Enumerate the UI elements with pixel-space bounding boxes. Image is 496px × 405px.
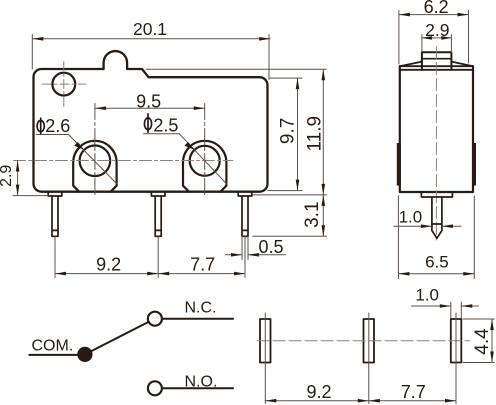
side button (422, 52, 452, 70)
svg-text:3.1: 3.1 (302, 201, 323, 227)
label phi2.5 symbol (144, 118, 151, 130)
dim 1.0 (bottom) right leader + arrow (461, 305, 478, 307)
pin 3 vertical centerline (455, 313, 457, 368)
side pin shank + tip (432, 197, 442, 238)
side pin seat (421, 192, 452, 197)
dim 2.9 bottom extension (13, 195, 49, 197)
svg-text:2.5: 2.5 (153, 116, 178, 136)
pin 2 extension below (157, 237, 159, 278)
mounting hole crosshair horizontal (42, 83, 86, 85)
pin 1 extension below (54, 237, 56, 278)
dim 6.5 extension left (397, 196, 399, 279)
dim 20.1 line (32, 38, 270, 40)
pin 3 extension below (244, 237, 246, 278)
label phi2.6 arrowhead (74, 142, 84, 150)
COM wire (29, 354, 77, 356)
side tab left (black) (397, 143, 401, 186)
dim 3.1 bottom extension (253, 235, 327, 237)
pin 3 (front view) (238, 192, 252, 237)
dim arrows (bottom) (265, 399, 276, 403)
dim 0.5 left leader + arrow (226, 254, 243, 256)
dim 6.5 extension right (473, 196, 475, 279)
dim 2.9 (side) extensions (421, 35, 423, 53)
dim 9.5 arrow left (95, 106, 106, 110)
dim 9.7 bottom extension (268, 190, 302, 192)
mounting hole (top-left circle) (52, 73, 75, 96)
svg-text:20.1: 20.1 (133, 19, 167, 39)
N.O. contact circle (148, 381, 162, 395)
dim 20.1 extension line right (268, 35, 270, 80)
hole phi2.5 (right hole circle) (190, 146, 220, 176)
svg-text:0.5: 0.5 (258, 237, 283, 257)
N.C. contact circle (148, 312, 162, 326)
svg-text:COM.: COM. (32, 338, 74, 355)
dim 2.9 (side) arrows (422, 36, 432, 40)
dim 4.4 arrows (490, 319, 494, 330)
pin 2 vertical centerline (368, 313, 370, 368)
dim 1.0 (side) left leader + arrow (394, 225, 432, 227)
N.C. wire (162, 318, 233, 320)
dim 20.1 extension line left (31, 35, 33, 70)
dim 2.9 arrow down (16, 185, 20, 196)
dim 6.5 line (398, 273, 474, 275)
svg-text:11.9: 11.9 (304, 116, 325, 152)
svg-text:7.7: 7.7 (190, 255, 215, 275)
svg-text:2.9: 2.9 (0, 165, 15, 187)
dim 9.2/7.7 line (front pins) (55, 273, 245, 275)
dim 3.1 arrow down (322, 225, 326, 236)
dim 2.9 line (17, 161, 19, 196)
dim 6.2 extension left (398, 11, 400, 65)
dim 9.7 line (297, 78, 299, 191)
side cap slope left (400, 62, 422, 67)
dim 6.2 arrows (399, 13, 410, 17)
hole 1 vertical centerline / 9.5 extension (94, 104, 96, 197)
dim 9.7 top extension (270, 77, 302, 79)
side cap line lower (400, 69, 473, 71)
lever wire COM to N.C. (85, 322, 149, 355)
pin 1 vertical centerline (264, 313, 266, 368)
dim 4.4 line (491, 319, 493, 363)
mounting hole crosshair vertical (63, 62, 65, 107)
dim 4.4 extensions (463, 318, 495, 320)
bottom view horizontal centerline (257, 340, 470, 342)
dim 11.9 arrow down (322, 184, 326, 195)
dim 2.9 (side) line (422, 37, 452, 39)
switch body outline (front view) (34, 51, 268, 192)
svg-text:2.6: 2.6 (45, 116, 70, 136)
bottom view pin 2 (364, 319, 375, 363)
holes horizontal centerline (14, 160, 234, 162)
foot 2 (right boss outline) (183, 141, 226, 192)
dim 7.7 arrow right (234, 272, 245, 276)
svg-text:2.9: 2.9 (425, 20, 449, 40)
label phi2.6 leader (69, 135, 118, 185)
svg-text:9.5: 9.5 (136, 91, 161, 111)
dim 20.1 arrow left (32, 37, 43, 41)
side button inner line (422, 58, 452, 60)
dim 1.0 (bottom) left leader + arrow (412, 305, 451, 307)
foot 1 (left boss outline) (73, 141, 116, 192)
dim 9.5 arrow right (194, 106, 205, 110)
dim 11.9 line (322, 69, 324, 195)
dim 2.9 arrow up (16, 161, 20, 172)
label phi2.6 underline (36, 134, 69, 136)
dim 0.5 extension lines (241, 237, 243, 260)
bottom view pin 3 (451, 319, 462, 363)
dim 1.0 (bottom) extensions (450, 302, 452, 318)
side center line (dashed) (435, 47, 437, 241)
svg-text:6.5: 6.5 (425, 252, 449, 271)
dim 6.2 extension right (468, 11, 470, 64)
dim 9.2 arrow left (55, 272, 66, 276)
label phi2.5 arrowhead (184, 142, 194, 150)
dim 11.9 bottom extension (252, 194, 326, 196)
label phi2.5 underline (144, 133, 180, 135)
svg-text:N.O.: N.O. (185, 373, 218, 390)
pin 2 (front view) (151, 192, 165, 237)
svg-text:9.7: 9.7 (277, 118, 298, 144)
svg-text:9.2: 9.2 (96, 255, 121, 275)
dim 3.1 arrow up (322, 195, 326, 206)
svg-text:4.4: 4.4 (472, 328, 493, 355)
N.O. wire (162, 387, 233, 389)
dim 0.5 right leader + arrow (248, 254, 286, 256)
pin 1 (front view, seat + shank + tip) (48, 192, 62, 237)
label phi2.6 symbol (37, 121, 44, 132)
dim 3.1 line (322, 195, 324, 236)
svg-text:1.0: 1.0 (399, 207, 423, 226)
side cap slope right (451, 62, 473, 67)
svg-text:N.C.: N.C. (185, 299, 217, 316)
bottom view pin 1 (260, 319, 271, 363)
dim 20.1 arrow right (259, 37, 270, 41)
side body outline (400, 66, 473, 192)
dim 11.9 arrow up (322, 69, 326, 80)
hole phi2.6 (left hole circle) (80, 146, 111, 177)
dim 9.7 arrow down (296, 180, 300, 191)
dim 6.5 arrows (398, 272, 409, 276)
dim 9.2/7.7 line (bottom) (265, 400, 456, 402)
svg-text:9.2: 9.2 (306, 382, 331, 402)
side tab right (black) (472, 143, 476, 186)
dim 9.7 arrow up (296, 78, 300, 89)
COM node (filled dot) (77, 347, 92, 362)
dim arrows at pin2 (147, 272, 158, 276)
label phi2.5 leader (179, 134, 227, 185)
bottom pins extension lines (264, 368, 266, 404)
dim 11.9 top extension (146, 68, 326, 70)
dim 1.0 (side) right leader + arrow (442, 225, 461, 227)
side cap line upper (400, 65, 473, 67)
dim 6.2 line (399, 14, 469, 16)
svg-text:6.2: 6.2 (424, 0, 449, 17)
dim 9.5 line (95, 107, 205, 109)
svg-text:7.7: 7.7 (401, 382, 426, 402)
hole 2 vertical centerline / 9.5 extension (204, 104, 206, 197)
svg-text:1.0: 1.0 (415, 286, 439, 305)
